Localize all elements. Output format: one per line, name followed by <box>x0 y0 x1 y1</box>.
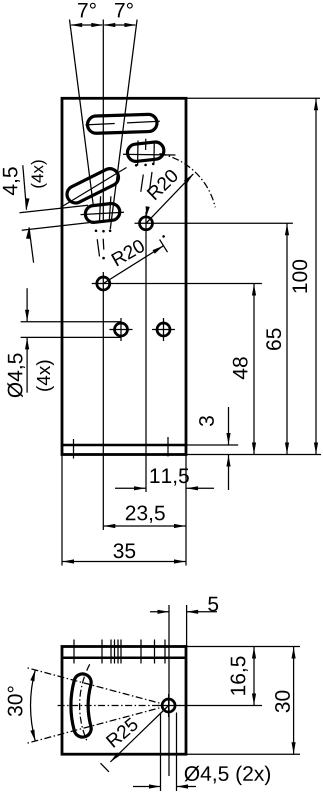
curved slot centerline arc <box>80 664 90 741</box>
ext hole A down <box>102 295 104 530</box>
dim 35 <box>62 561 186 563</box>
ext line slot width top <box>20 205 89 213</box>
projection tick x=73.5 <box>73 439 75 459</box>
ext top edge right <box>186 97 320 99</box>
hole E (4,5 dia) <box>157 694 180 717</box>
tangent ext hole E right <box>176 713 178 792</box>
label R25 <box>106 717 140 748</box>
slot 2 (small, upper right) <box>127 141 165 162</box>
slot 4 dots <box>95 230 112 233</box>
arc tick R25 <box>101 763 109 772</box>
fan dash left <box>97 239 99 256</box>
tangent line hole C bottom <box>21 336 121 338</box>
center line horizontal bottom view <box>58 705 183 707</box>
ext bottom edge bottomview right <box>186 753 300 755</box>
step line bottom view <box>62 656 186 659</box>
slot 2 tick b <box>145 139 147 150</box>
ext line slot width bottom <box>22 223 89 231</box>
hole D <box>152 318 175 341</box>
label dia 4,5 <box>7 354 25 398</box>
label 4,5 <box>3 167 20 195</box>
hole C <box>110 318 133 341</box>
angular reference line right (7deg) <box>110 20 137 230</box>
ext right edge up <box>186 605 188 647</box>
fan dash middle <box>102 239 105 250</box>
angular reference line middle <box>102 20 104 223</box>
projection tick x=168 <box>167 437 169 457</box>
center line 15deg upper <box>26 668 169 706</box>
radius dim R25 <box>110 706 168 762</box>
step edge 3mm above bottom <box>62 444 186 447</box>
label 16,5 <box>231 656 248 694</box>
slot 4 axis line <box>81 212 125 214</box>
dim line 4,5 upper part <box>23 165 27 210</box>
tangent ext hole E left <box>160 713 162 792</box>
label 5 <box>208 597 218 612</box>
center line hole E vertical <box>168 647 170 777</box>
radius dim R20 lower leader <box>103 246 163 284</box>
ext step right (3) <box>186 444 238 446</box>
slot 2 axis line <box>123 153 176 156</box>
ext left edge down <box>61 455 63 566</box>
label (4x) <box>31 160 47 187</box>
pitch arc R20 around hole B (dash-dot) <box>160 154 216 208</box>
part outline (front view) <box>62 98 186 454</box>
ext top edge bottomview right <box>186 646 300 648</box>
label R20 upper <box>146 168 179 200</box>
dim line 65 <box>286 223 288 454</box>
slot 2 swing mark right <box>150 172 153 191</box>
label R20 lower <box>111 238 146 266</box>
label 11,5 <box>150 469 188 486</box>
label 35 <box>114 543 136 558</box>
dim arrows 7deg left pair <box>71 24 102 26</box>
ext hole A right (48) <box>115 283 262 285</box>
dim arrows 7deg right pair <box>104 24 135 26</box>
part outline (bottom view) <box>62 647 186 755</box>
hole B (pivot, 4,5 dia) <box>135 212 158 235</box>
dim 11,5 <box>115 487 146 489</box>
center line 15deg lower <box>26 706 169 744</box>
label 30 <box>275 691 290 713</box>
dim line 16,5 <box>253 647 255 706</box>
slot 3 axis line <box>61 168 127 208</box>
slot 3 (tilted) <box>64 166 121 206</box>
dim line 48 <box>253 284 255 455</box>
tangent line hole C top <box>21 321 121 323</box>
dim dia4,5 2x <box>133 786 161 788</box>
slot 2 swing mark left <box>141 175 144 192</box>
dot near B <box>162 235 165 238</box>
dim line 4,5 lower part <box>29 227 34 262</box>
label 30deg <box>8 686 23 716</box>
curved slot (30deg arc slot) <box>71 674 91 737</box>
dim 5 <box>150 611 169 613</box>
ext right edge down <box>185 455 187 566</box>
dim 23,5 <box>103 525 186 527</box>
slot 2 tick c <box>153 141 155 165</box>
dim arc 30deg <box>31 670 36 741</box>
ext hole B right (65) <box>158 222 293 224</box>
label 7deg right <box>115 3 133 18</box>
angular reference line left (7deg) <box>70 20 94 208</box>
label 100 <box>292 260 307 293</box>
label 3 <box>199 416 214 426</box>
slot 4 tick b <box>109 196 111 221</box>
slot 4 (small horizontal) <box>84 203 120 224</box>
label 7deg left <box>78 3 96 18</box>
slot 2 dots <box>135 163 155 167</box>
label 65 <box>266 329 281 350</box>
dim line 100 <box>315 98 317 454</box>
slot 1 (top horizontal) <box>87 114 157 133</box>
ext hole E right <box>183 705 262 707</box>
label 23,5 <box>126 506 165 523</box>
label dia 4,5 (2x) <box>185 766 270 786</box>
radius dim R20 upper leader <box>146 174 193 223</box>
slot 1 axis line <box>86 124 115 125</box>
label (4x) lower <box>36 361 54 391</box>
ext hole B down <box>145 235 147 492</box>
slot 2 tick a <box>137 141 139 166</box>
dim line 30 <box>293 647 295 755</box>
dim line dia4,5 lower <box>26 338 28 393</box>
fan dot middle low <box>102 257 105 260</box>
ext bottom edge right <box>186 454 321 456</box>
hole A (pivot, 4,5 dia) <box>92 272 115 295</box>
ext hole E up <box>168 605 170 647</box>
dim line 3 <box>228 407 230 445</box>
label 48 <box>233 357 248 379</box>
slot projection ticks <box>74 640 165 664</box>
dim line dia4,5 upper <box>26 288 28 321</box>
slot 4 tick a <box>100 196 101 221</box>
arc tick R20 lower <box>160 240 168 253</box>
